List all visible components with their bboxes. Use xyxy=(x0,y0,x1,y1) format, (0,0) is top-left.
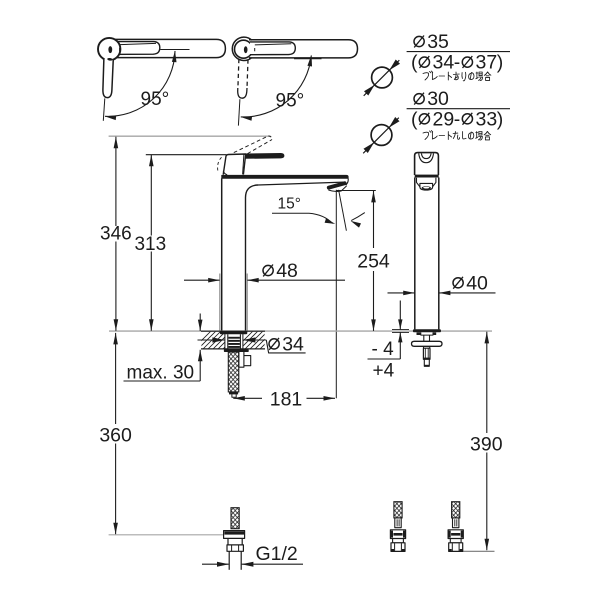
dim d40 label xyxy=(453,278,463,288)
plan view A: lever in line position xyxy=(112,42,160,55)
front view: body right edge with inner corner xyxy=(246,185,259,331)
hole symbol circle xyxy=(364,60,400,96)
shank end fitting: braided stub xyxy=(231,508,239,529)
svg-text:35: 35 xyxy=(427,31,449,53)
svg-text:15°: 15° xyxy=(278,195,301,212)
front view: spout arm end face xyxy=(346,179,348,186)
svg-text:181: 181 xyxy=(270,388,303,410)
threaded shank xyxy=(227,334,229,349)
label dia 35 xyxy=(414,36,424,46)
svg-text:95°: 95° xyxy=(276,91,305,112)
mounting washer and nut xyxy=(224,349,249,352)
front view: 346 extension line (raised lever top) xyxy=(109,135,271,137)
svg-text:95°: 95° xyxy=(141,89,170,110)
dim 360 line xyxy=(115,333,117,424)
svg-text:34: 34 xyxy=(433,52,455,74)
svg-text:33: 33 xyxy=(476,108,498,130)
svg-text:G1/2: G1/2 xyxy=(256,543,298,565)
svg-text:390: 390 xyxy=(470,434,503,456)
shank end fitting: mid xyxy=(228,538,242,545)
360 bottom reference line xyxy=(109,534,224,536)
front view: body top cap band xyxy=(222,175,349,178)
leader line 30 xyxy=(407,108,510,110)
plan view A: spout arm (handle at 95 deg) xyxy=(112,39,225,57)
dim 254 extension line xyxy=(337,190,376,192)
side view: threaded stub and nut xyxy=(424,346,430,348)
base flange xyxy=(220,331,247,334)
leader line 35 xyxy=(407,51,510,53)
svg-text:- 4: - 4 xyxy=(372,339,395,360)
svg-text:max. 30: max. 30 xyxy=(127,362,195,383)
note: without plate case (Japanese) xyxy=(423,131,491,141)
shank end fitting: upper body xyxy=(224,531,245,539)
svg-text:360: 360 xyxy=(99,424,132,446)
15 deg leader xyxy=(272,213,333,223)
svg-text:29: 29 xyxy=(433,108,455,130)
front view: 313 extension line xyxy=(146,154,227,156)
counter slab bottom xyxy=(201,348,265,350)
front view: raised lever (dashed) xyxy=(234,136,269,153)
hole edges xyxy=(224,331,226,349)
note: with plate case (Japanese) xyxy=(423,71,491,81)
plan view A: 95 deg angle dimension xyxy=(160,49,189,51)
svg-text:): ) xyxy=(497,108,504,130)
dim -4/+4 xyxy=(399,301,401,330)
svg-text:48: 48 xyxy=(276,260,298,282)
front view: spout tip (aerator) xyxy=(329,183,345,187)
plan view B: lever in line position xyxy=(250,42,295,55)
dim max.30 xyxy=(199,314,201,332)
plan view A: mousehole slot xyxy=(108,46,112,53)
plan view A: cartridge head circle xyxy=(98,38,120,60)
side view: body column xyxy=(414,178,416,330)
plan view A: handle rotated 95deg xyxy=(103,58,113,98)
dim G1/2 xyxy=(202,563,229,565)
svg-text:37: 37 xyxy=(476,52,498,74)
dim d40 xyxy=(388,292,415,294)
svg-text:): ) xyxy=(497,52,504,74)
side view: stabilizing washer xyxy=(412,341,443,346)
counter reference line xyxy=(109,330,492,332)
svg-text:(: ( xyxy=(411,52,418,74)
front view: base section edges (d48) xyxy=(219,274,221,331)
side view: spout seen end-on xyxy=(417,178,420,187)
dim 254 line xyxy=(373,191,375,248)
dim 390 line xyxy=(486,332,488,433)
side view: under-flange parts xyxy=(417,332,421,335)
svg-text:346: 346 xyxy=(100,224,132,245)
svg-text:+4: +4 xyxy=(373,361,395,382)
dim d34 label xyxy=(269,339,279,349)
front view: lever handle bar xyxy=(244,154,284,159)
supply hose fitting right xyxy=(448,502,463,552)
dim d48 xyxy=(184,279,220,281)
side view: lever top arcs xyxy=(419,154,434,163)
svg-text:34: 34 xyxy=(282,333,304,355)
side view: joint band xyxy=(415,175,439,178)
svg-text:30: 30 xyxy=(427,88,449,110)
side view: stem xyxy=(423,335,425,341)
front view: body left edge xyxy=(221,178,223,331)
svg-text:(: ( xyxy=(411,108,418,130)
G1/2 pipe xyxy=(228,551,230,570)
plan view B: mousehole slot xyxy=(244,46,248,53)
counter slab top xyxy=(201,330,265,332)
dim d34 xyxy=(198,339,225,341)
svg-text:-: - xyxy=(454,108,461,130)
plan view B: spout arm xyxy=(249,40,358,58)
side view: lever block xyxy=(415,153,439,175)
front view: arm underside xyxy=(258,182,344,185)
label dia 30 xyxy=(414,94,424,104)
plan view B: 95 deg angle dimension xyxy=(294,58,322,60)
plan view B: cartridge head circle xyxy=(235,40,253,58)
plan view B: outer escutcheon ring xyxy=(232,37,252,60)
dim 346 line xyxy=(115,137,117,226)
dim 181 xyxy=(233,397,262,399)
shank end fitting: nut xyxy=(227,545,243,551)
dim d48 label xyxy=(263,265,273,275)
front view: 15 deg stream line xyxy=(339,190,347,231)
counter hatching xyxy=(192,331,288,350)
svg-text:40: 40 xyxy=(466,272,488,294)
plan view B: handle rotated 95deg (dashed) xyxy=(238,59,239,89)
mounting stud and nut xyxy=(239,352,244,367)
supply hose fitting left xyxy=(390,502,405,552)
390 bottom reference line xyxy=(462,550,495,552)
svg-text:254: 254 xyxy=(357,251,390,273)
svg-text:313: 313 xyxy=(134,234,166,255)
hole symbol circle xyxy=(363,118,399,154)
front view: cartridge housing (knuckle) xyxy=(223,154,246,175)
dim 313 line xyxy=(150,155,152,236)
side view: base flange xyxy=(413,329,441,332)
front view: stream vertical reference xyxy=(335,190,337,398)
svg-text:-: - xyxy=(454,52,461,74)
